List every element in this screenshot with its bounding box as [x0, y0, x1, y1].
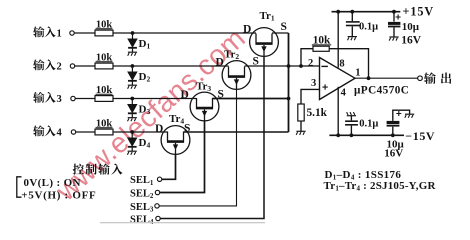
- svg-text:+5V(H) : OFF: +5V(H) : OFF: [21, 190, 96, 202]
- svg-text:SEL1: SEL1: [130, 175, 154, 187]
- svg-text:D: D: [216, 56, 224, 68]
- svg-text:D1: D1: [139, 38, 151, 51]
- svg-text:D: D: [181, 89, 189, 101]
- svg-text:0.1μ: 0.1μ: [359, 119, 378, 130]
- svg-text:1: 1: [355, 67, 360, 78]
- svg-text:Tr1: Tr1: [260, 10, 275, 23]
- svg-text:4: 4: [341, 87, 347, 98]
- svg-text:μPC4570C: μPC4570C: [354, 85, 409, 97]
- svg-text:0V(L) : ON: 0V(L) : ON: [24, 177, 81, 189]
- svg-text:16V: 16V: [384, 147, 403, 159]
- svg-text:1: 1: [57, 28, 62, 39]
- svg-text:S: S: [281, 21, 287, 33]
- svg-text:5.1k: 5.1k: [307, 107, 328, 119]
- svg-text:D: D: [155, 123, 163, 135]
- svg-text:S: S: [184, 123, 190, 135]
- svg-text:D4: D4: [139, 137, 151, 150]
- svg-text:3: 3: [57, 94, 62, 105]
- svg-text:SEL4: SEL4: [130, 214, 154, 225]
- svg-text:SEL2: SEL2: [130, 188, 154, 200]
- svg-text:8: 8: [339, 59, 344, 70]
- svg-text:+15V: +15V: [403, 5, 435, 19]
- svg-text:0.1μ: 0.1μ: [359, 21, 378, 32]
- svg-text:Tr4: Tr4: [169, 113, 184, 126]
- svg-text:2: 2: [57, 61, 62, 72]
- svg-text:10μ: 10μ: [402, 21, 420, 33]
- svg-text:D2: D2: [139, 71, 151, 84]
- svg-text:D: D: [243, 24, 251, 36]
- svg-text:4: 4: [57, 127, 63, 138]
- svg-text:3: 3: [311, 78, 316, 89]
- svg-text:16V: 16V: [401, 34, 422, 46]
- svg-text:2: 2: [308, 58, 313, 69]
- svg-text:SEL3: SEL3: [130, 202, 154, 214]
- svg-text:−15V: −15V: [405, 129, 435, 143]
- svg-text:Tr1–Tr4 : 2SJ105-Y,GR: Tr1–Tr4 : 2SJ105-Y,GR: [324, 180, 437, 193]
